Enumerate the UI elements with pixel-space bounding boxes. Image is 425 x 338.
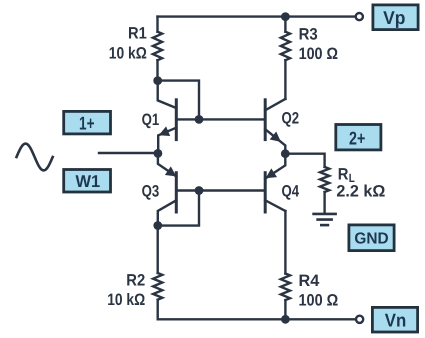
label box 1+ xyxy=(64,111,111,133)
svg-text:1+: 1+ xyxy=(79,112,95,133)
node output xyxy=(281,149,290,158)
svg-text:Vp: Vp xyxy=(383,7,405,28)
label box Vn xyxy=(372,307,417,332)
svg-text:2.2 kΩ: 2.2 kΩ xyxy=(336,183,385,201)
label box GND xyxy=(349,225,394,251)
svg-text:R4: R4 xyxy=(299,272,321,290)
label box Vp xyxy=(373,5,418,30)
transistor Q3 xyxy=(158,153,177,225)
transistor Q1 xyxy=(158,81,177,154)
wire Q1 base loop xyxy=(158,81,199,120)
node Q3 base xyxy=(195,186,204,195)
node input xyxy=(154,149,163,158)
svg-text:2+: 2+ xyxy=(349,127,365,148)
svg-text:100 Ω: 100 Ω xyxy=(299,45,338,63)
svg-text:10 kΩ: 10 kΩ xyxy=(107,291,145,309)
transistor Q4 xyxy=(265,154,285,212)
label box 2+ xyxy=(336,125,381,150)
svg-text:Q2: Q2 xyxy=(282,109,300,127)
terminal Vp xyxy=(356,13,363,20)
svg-text:R2: R2 xyxy=(126,272,145,290)
svg-text:Q4: Q4 xyxy=(282,183,300,201)
svg-text:R3: R3 xyxy=(299,26,318,44)
svg-text:Q1: Q1 xyxy=(142,111,160,129)
node R4 bottom xyxy=(281,315,290,324)
resistor R2 xyxy=(153,226,162,320)
wire Q3 base loop xyxy=(158,191,199,226)
node Q3 collector xyxy=(153,221,162,230)
node R3 top xyxy=(281,12,290,21)
node Q1 collector xyxy=(153,76,162,85)
svg-text:Vn: Vn xyxy=(385,310,407,331)
resistor R3 xyxy=(281,17,290,99)
svg-text:Q3: Q3 xyxy=(142,183,160,201)
wire top rail xyxy=(158,15,355,17)
node Q1 base xyxy=(195,115,204,124)
resistor RL xyxy=(285,154,329,214)
resistor R1 xyxy=(153,17,162,81)
svg-text:10 kΩ: 10 kΩ xyxy=(109,45,147,63)
ground xyxy=(314,214,336,225)
terminal Vn xyxy=(356,316,363,323)
transistor Q2 xyxy=(265,99,285,154)
svg-text:100 Ω: 100 Ω xyxy=(299,292,339,310)
svg-text:R1: R1 xyxy=(128,25,147,43)
wire input W1 xyxy=(99,152,158,154)
svg-text:R: R xyxy=(338,165,349,183)
wire base Q1-Q2 xyxy=(176,118,265,120)
svg-text:GND: GND xyxy=(354,231,388,248)
resistor R4 xyxy=(281,211,290,319)
svg-text:W1: W1 xyxy=(75,172,100,191)
source sine symbol xyxy=(17,144,53,171)
wire bottom rail xyxy=(158,318,356,320)
wire base Q3-Q4 xyxy=(176,189,265,191)
label box W1 xyxy=(64,170,111,193)
